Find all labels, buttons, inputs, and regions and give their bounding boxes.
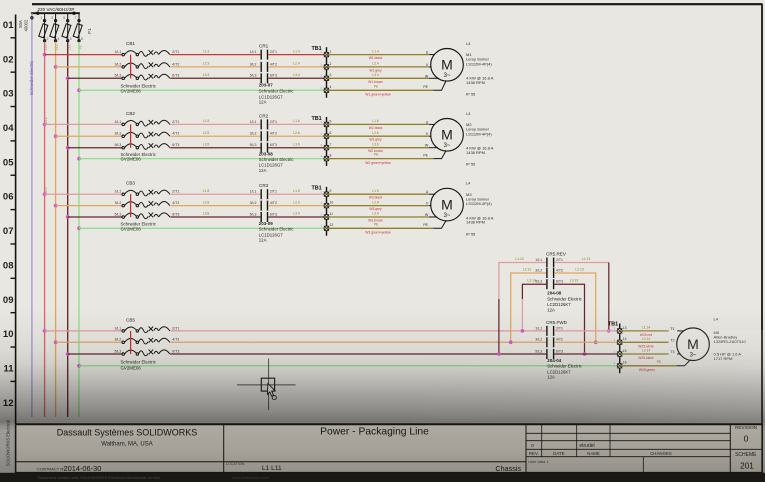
terminal 3	[324, 76, 329, 81]
junction node L3 tap	[66, 146, 70, 150]
svg-text:0: 0	[744, 434, 749, 444]
junction L2 tap for reverser	[509, 340, 513, 344]
motor stub W	[429, 216, 437, 218]
svg-text:SOLIDWORKS Electrical: SOLIDWORKS Electrical	[6, 420, 11, 467]
selection box	[261, 378, 274, 391]
title block borders	[16, 424, 762, 473]
circuit breaker CB5	[114, 317, 179, 370]
wire L1.13 from CR5.REV T1	[554, 262, 608, 264]
fuse-disconnect F1 pole 2	[50, 13, 60, 42]
svg-text:L1 L11: L1 L11	[262, 465, 282, 472]
terminal strip TB1	[312, 116, 332, 166]
junction node L3 tap	[66, 215, 70, 219]
junction node L3 tap circuit 5	[66, 352, 70, 356]
contactor CR3	[250, 183, 295, 243]
terminal 7	[324, 145, 329, 150]
wire L2.13 from CR5.REV T2	[554, 273, 595, 342]
junction node L1 tap circuit 5	[43, 329, 47, 333]
motor M3 nameplate	[466, 181, 494, 237]
wire L3.11 CB5 to CR5.FWD	[170, 353, 546, 355]
terminal 12	[324, 226, 329, 231]
junction node L1 tap	[43, 53, 47, 57]
junction node PE tap	[77, 226, 81, 230]
editor crosshair (vertical)	[268, 359, 270, 411]
wire L3.6	[268, 147, 326, 149]
mechanical link of CB5	[130, 331, 132, 354]
circuit breaker CB3	[114, 181, 179, 232]
junction node L2 tap	[54, 204, 58, 208]
wire L1.6 to motor U	[327, 123, 429, 125]
terminal 5	[324, 122, 329, 127]
svg-text:SCHEME: SCHEME	[735, 452, 757, 458]
wire L2.12 riser (orange)	[511, 273, 547, 342]
wire L3.6 to motor W	[327, 147, 429, 149]
wire L2.11 CB5 to CR5.FWD	[170, 341, 546, 343]
svg-text:CHANGES: CHANGES	[650, 451, 672, 456]
svg-text:User data 1: User data 1	[528, 459, 549, 464]
wire L2.14 CR5.FWD to TB1	[554, 341, 619, 343]
motor PE stub	[434, 81, 447, 91]
wire L3.9	[268, 216, 326, 218]
terminal 9	[324, 192, 329, 197]
terminal 6	[324, 134, 329, 139]
wire L2.8	[170, 205, 260, 207]
fuse-disconnect F1 pole 4	[73, 13, 83, 42]
wire L1.9	[268, 193, 326, 195]
wire L1.14 to motor T1	[620, 330, 669, 332]
junction node L2 tap	[54, 134, 58, 138]
mouse cursor	[267, 384, 275, 397]
wire L1.4 feeder to CB2	[45, 123, 123, 125]
svg-text:CONTRACT N° :: CONTRACT N° :	[37, 466, 67, 471]
terminal 11	[324, 215, 329, 220]
wire PE to motor	[327, 227, 434, 229]
wire L1.4 to motor U	[327, 54, 429, 56]
circuit breaker CB2	[114, 111, 179, 162]
svg-text:Power - Packaging Line: Power - Packaging Line	[320, 427, 429, 438]
svg-text:etrudel: etrudel	[579, 443, 594, 449]
wire L2.4 to motor V	[327, 66, 429, 68]
wire L2.10 feeder to CB5	[56, 341, 123, 343]
motor M2 nameplate	[466, 111, 494, 167]
wire L3.4 to motor W	[327, 77, 429, 79]
terminal 16	[617, 363, 622, 368]
terminal 15	[617, 352, 622, 357]
wire L2.7 feeder to CB3	[56, 205, 123, 207]
terminal 4	[324, 88, 329, 93]
wire L3.4 feeder to CB2	[68, 147, 123, 149]
fuse-disconnect F1 pole 3	[62, 13, 72, 42]
svg-text:LOCATION:: LOCATION:	[226, 462, 245, 466]
snap badge	[272, 396, 276, 400]
terminal 10	[324, 203, 329, 208]
svg-text:REVISION: REVISION	[735, 425, 757, 430]
wire L3 feeder (vertical)	[67, 42, 69, 417]
junction node PE tap circuit 5	[77, 364, 81, 368]
wire L3.8	[170, 216, 260, 218]
wire L2.3	[170, 66, 260, 68]
wire PE to TB1	[79, 227, 327, 229]
junction L1 tap for reverser	[521, 329, 525, 333]
circuit breaker CB1	[114, 41, 179, 93]
wire L1.6	[268, 123, 326, 125]
motor M2	[431, 119, 464, 152]
contactor CR1	[250, 44, 295, 105]
wire PE to TB1 (bottom)	[79, 365, 620, 367]
wire L1.3	[170, 54, 260, 56]
motor stub U	[429, 123, 435, 125]
title block background	[16, 425, 761, 473]
wire L1.4	[268, 54, 326, 56]
junction node L1 tap	[43, 192, 47, 196]
svg-text:Waltham, MA, USA: Waltham, MA, USA	[101, 442, 152, 448]
motor stub V	[429, 205, 432, 207]
junction T3	[583, 352, 587, 356]
motor stub V	[429, 66, 432, 68]
wire L3.12 riser (maroon)	[498, 299, 500, 354]
svg-text:2014-06-30: 2014-06-30	[64, 464, 102, 473]
svg-text:201: 201	[740, 462, 754, 471]
wire to CR5.REV pole1 (rose)	[499, 263, 546, 300]
junction node PE tap	[77, 157, 81, 161]
wire L1.9 to motor U	[327, 193, 429, 195]
svg-text:Document created with SOLIDWOR: Document created with SOLIDWORKS Electri…	[38, 475, 160, 480]
wire L1.8	[170, 193, 260, 195]
contactor CR5.FWD	[535, 320, 582, 380]
wire L2.6 to motor V	[327, 135, 429, 137]
wire L1 feeder (vertical)	[44, 42, 46, 417]
mechanical link of CB2	[130, 124, 132, 147]
wire L3.14 to motor T3	[620, 353, 669, 355]
terminal 8	[324, 156, 329, 161]
feeder tags	[44, 44, 82, 50]
svg-text:Dassault Systèmes SOLIDWORKS: Dassault Systèmes SOLIDWORKS	[57, 428, 198, 438]
svg-text:REV.: REV.	[529, 451, 539, 456]
wire L2.4	[268, 66, 326, 68]
wire L1.14 CR5.FWD to TB1	[554, 330, 619, 332]
junction node L3 tap	[66, 76, 70, 80]
wire L1.11 CB5 to CR5.FWD	[170, 330, 546, 332]
junction node L2 tap	[54, 65, 58, 69]
supply bus	[31, 12, 80, 14]
svg-text:DATE: DATE	[553, 451, 564, 456]
wire PE feeder (vertical)	[78, 42, 80, 417]
wire PE to motor	[327, 158, 434, 160]
svg-text:0: 0	[531, 443, 534, 449]
frame right border	[761, 4, 763, 473]
feeder net tags between rows	[44, 117, 48, 193]
motor stub U	[429, 54, 435, 56]
terminal strip TB1	[312, 46, 332, 98]
fuse-disconnect F1 pole 1	[39, 13, 49, 42]
motor M1 nameplate	[466, 41, 494, 97]
wire PE to motor M5	[620, 365, 677, 367]
wire PE to TB1	[79, 158, 327, 160]
wire L3.5	[170, 147, 260, 149]
wire L3.13 from CR5.REV T3	[554, 284, 584, 354]
wire L1.2 feeder to CB1	[45, 54, 123, 56]
wire L3.2 feeder to CB1	[68, 77, 123, 79]
motor PE stub	[434, 151, 447, 159]
wire L2.6	[268, 135, 326, 137]
wire L2.14 to motor T2	[620, 341, 669, 343]
wire L2.5	[170, 135, 260, 137]
wire L2.9 to motor V	[327, 205, 429, 207]
wire L3.3	[170, 77, 260, 79]
wire L3.14 CR5.FWD to TB1	[554, 353, 619, 355]
wire L2 feeder (vertical)	[55, 42, 57, 417]
wire L2.2 feeder to CB1	[56, 66, 123, 68]
terminal 14	[617, 340, 622, 345]
wire L3.7 feeder to CB3	[68, 216, 123, 218]
terminal strip TB1	[312, 186, 334, 236]
terminal 2	[324, 64, 329, 69]
wire L3.4	[268, 77, 326, 79]
junction node L1 tap	[43, 123, 47, 127]
svg-text:www.solidworks.com: www.solidworks.com	[232, 475, 270, 480]
wire L2.4 feeder to CB2	[56, 135, 123, 137]
motor M1	[431, 49, 464, 82]
editor crosshair (horizontal)	[237, 384, 296, 386]
contactor CR5.REV	[535, 252, 582, 313]
contactor CR2	[250, 113, 295, 173]
wire to CR5.REV pole3 (maroon)	[522, 284, 546, 299]
junction node L2 tap circuit 5	[54, 340, 58, 344]
junction L3 tap for reverser	[497, 352, 501, 356]
junction node PE tap	[77, 88, 81, 92]
motor M5	[677, 328, 710, 361]
mechanical link of CB1	[130, 55, 132, 79]
vignette correction bottom-right	[380, 330, 765, 424]
motor PE stub	[434, 220, 447, 228]
svg-text:Chassis: Chassis	[495, 464, 521, 473]
terminal 13	[617, 328, 622, 333]
terminal strip TB1	[608, 321, 627, 373]
row scale 01-12	[3, 20, 16, 409]
junction T2	[594, 340, 598, 344]
wire L3.9 to motor W	[327, 216, 429, 218]
frame top border	[32, 3, 763, 5]
wire PE to motor	[327, 89, 434, 91]
wire PE to TB1	[79, 89, 327, 91]
neutral wire N (violet)	[31, 13, 33, 417]
motor stub T2	[676, 341, 678, 343]
wire L1.5	[170, 123, 260, 125]
motor stub V	[429, 135, 432, 137]
motor M3	[431, 188, 464, 221]
bus junction	[72, 12, 75, 15]
wire L3.10 feeder to CB5	[68, 353, 123, 355]
wire L2.9	[268, 205, 326, 207]
terminal circle	[31, 17, 33, 19]
motor stub W	[429, 77, 439, 79]
junction T1	[607, 329, 611, 333]
motor M5 PE stub	[677, 360, 691, 366]
motor stub W	[429, 147, 438, 149]
terminal 1	[324, 52, 329, 57]
riser to T1 node (maroon)	[608, 263, 610, 331]
motor stub T3	[677, 353, 680, 355]
bus junction	[36, 12, 39, 15]
svg-text:NAME: NAME	[587, 451, 600, 456]
wire L1.10 feeder to CB5	[45, 330, 123, 332]
motor stub U	[429, 193, 435, 195]
motor stub T1	[677, 330, 684, 332]
mechanical link of CB3	[130, 194, 132, 217]
wire L1.7 feeder to CB3	[45, 193, 123, 195]
frame left border	[15, 15, 17, 425]
motor M5 nameplate	[714, 316, 747, 361]
video bottom bar	[0, 473, 765, 482]
wire L1.12 riser (pink)	[521, 299, 523, 331]
